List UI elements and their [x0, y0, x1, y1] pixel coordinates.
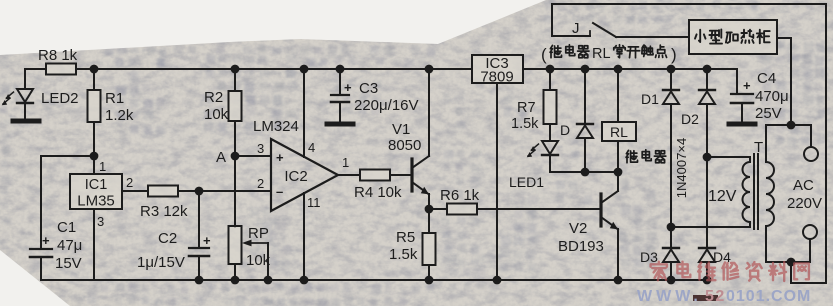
- capacitor C1: [40, 156, 42, 247]
- node C2 junction: [195, 187, 204, 196]
- node IC1 pin1 junction: [90, 152, 99, 161]
- svg-text:LED1: LED1: [509, 174, 544, 190]
- wire relay bottom node: [550, 171, 618, 173]
- svg-text:1.2k: 1.2k: [105, 107, 134, 124]
- svg-text:RL: RL: [610, 124, 628, 140]
- collector wire V1: [428, 69, 430, 156]
- svg-text:LM35: LM35: [77, 193, 115, 210]
- svg-text:+: +: [344, 80, 352, 95]
- diode D3: [663, 247, 679, 249]
- diode D (flyback): [584, 69, 586, 124]
- svg-text:1μ/15V: 1μ/15V: [137, 254, 185, 271]
- wire J to heater box: [616, 36, 689, 38]
- wire IC3 ground pin: [496, 83, 498, 280]
- svg-text:LM324: LM324: [253, 118, 299, 135]
- node C3 top: [336, 65, 345, 74]
- resistor R1: [93, 69, 95, 90]
- pin 1 (IC2 output) wire: [338, 174, 360, 176]
- transformer T secondary winding 12V: [743, 157, 750, 227]
- terminal AC bottom: [803, 225, 817, 239]
- label relay (Chinese): [626, 150, 637, 162]
- svg-text:R5: R5: [396, 229, 415, 246]
- relay coil RL: [617, 69, 619, 122]
- svg-text:J: J: [572, 20, 580, 37]
- svg-text:V1: V1: [392, 121, 410, 138]
- svg-text:R1: R1: [105, 90, 124, 107]
- svg-text:R8 1k: R8 1k: [38, 47, 78, 64]
- svg-text:1: 1: [342, 155, 349, 170]
- svg-text:R3 12k: R3 12k: [140, 203, 188, 220]
- node D cathode top: [581, 65, 590, 74]
- capacitor C4: [736, 69, 738, 92]
- svg-text:3: 3: [97, 214, 104, 229]
- pin 2 (IC1) output wire: [122, 190, 148, 192]
- svg-text:A: A: [216, 149, 226, 166]
- watermark red Chinese text: [651, 262, 809, 281]
- transformer primary winding: [766, 160, 774, 228]
- box heater 小型加热柜: [689, 20, 777, 54]
- svg-text:D2: D2: [681, 111, 699, 127]
- IC U-IC3 7809 regulator: [472, 55, 523, 83]
- svg-text:1N4007×4: 1N4007×4: [674, 138, 689, 198]
- svg-text:1.5k: 1.5k: [389, 246, 418, 263]
- wire primary top lead: [765, 125, 767, 160]
- resistor R4: [360, 170, 390, 181]
- svg-text:LED2: LED2: [41, 90, 79, 107]
- resistor R2: [234, 69, 236, 91]
- svg-text:0101.COM: 0101.COM: [726, 288, 811, 305]
- LED LED1: [542, 141, 558, 154]
- wire top supply rail (left of IC3): [25, 68, 46, 70]
- wire secondary bottom: [671, 226, 750, 228]
- node R2 top: [231, 65, 240, 74]
- svg-text:R7: R7: [517, 100, 536, 116]
- svg-text:D: D: [560, 122, 570, 138]
- capacitor C3: [339, 69, 341, 93]
- collector wire V2: [617, 172, 619, 191]
- svg-text:IC2: IC2: [284, 168, 307, 185]
- node secondary bottom tap: [667, 223, 676, 232]
- wire top supply rail (right of IC3, +12V): [523, 68, 737, 70]
- svg-text:12V: 12V: [708, 188, 737, 205]
- ground (LED2): [13, 119, 39, 124]
- node R7 top: [546, 65, 555, 74]
- pin 11 (IC2 V-): [303, 193, 305, 280]
- wire R6 to V2 base: [477, 208, 601, 210]
- svg-text:47μ: 47μ: [57, 237, 82, 254]
- node D2 top: [703, 65, 712, 74]
- svg-text:D1: D1: [641, 91, 659, 107]
- wire to C1 branch: [41, 155, 94, 157]
- svg-text:C4: C4: [757, 70, 776, 87]
- wire A to op-amp non-inverting input: [235, 155, 271, 157]
- LED LED2: [24, 69, 26, 89]
- potentiometer RP: [229, 226, 242, 264]
- svg-text:): ): [671, 45, 677, 64]
- ground (C4): [729, 122, 755, 127]
- svg-text:R2: R2: [204, 89, 223, 106]
- wire R3 to op-amp inverting input: [178, 190, 271, 192]
- wire secondary top: [707, 156, 750, 158]
- svg-text:C1: C1: [57, 219, 76, 236]
- svg-text:+: +: [743, 78, 751, 93]
- transistor V2 BD193: [599, 194, 602, 226]
- svg-text:V2: V2: [569, 220, 587, 237]
- diode D2: [706, 69, 708, 90]
- resistor R8: [46, 64, 76, 75]
- wire emitter to R6: [429, 208, 447, 210]
- emitter wire V1: [428, 194, 430, 209]
- wire primary-top node: [766, 124, 811, 126]
- svg-text:2: 2: [257, 176, 264, 191]
- svg-text:(: (: [541, 45, 547, 64]
- svg-text:BD193: BD193: [558, 238, 604, 255]
- svg-text:R4 10k: R4 10k: [354, 184, 402, 201]
- svg-text:–: –: [276, 184, 283, 199]
- resistor R5: [428, 209, 430, 233]
- IC U-IC1 LM35 temperature sensor: [70, 174, 122, 209]
- svg-text:RP: RP: [248, 225, 269, 242]
- wire heater to AC node: [777, 37, 791, 39]
- node secondary top tap: [703, 153, 712, 162]
- node A: [231, 152, 240, 161]
- wire primary bottom lead: [765, 226, 767, 262]
- svg-text:RL: RL: [592, 46, 611, 62]
- svg-text:1.5k: 1.5k: [511, 116, 539, 132]
- wire D1-D3 column: [670, 104, 672, 248]
- svg-text:470μ: 470μ: [755, 88, 789, 105]
- node RL top: [614, 65, 623, 74]
- node primary top junction: [787, 121, 796, 130]
- capacitor C2: [198, 191, 200, 246]
- diode D1: [670, 69, 672, 90]
- resistor R6: [447, 204, 477, 215]
- svg-text:IC1: IC1: [85, 177, 108, 193]
- emitter wire V2: [617, 229, 619, 280]
- wire to outer loop: [791, 262, 826, 283]
- op-amp U-IC2 (LM324 section): [271, 139, 338, 211]
- ground (C3): [327, 122, 353, 127]
- node R8/R1 junction: [90, 65, 99, 74]
- svg-text:52: 52: [705, 288, 726, 305]
- svg-text:AC: AC: [793, 177, 814, 194]
- svg-text:8050: 8050: [388, 137, 421, 154]
- svg-text:220V: 220V: [787, 195, 822, 212]
- svg-text:1: 1: [99, 159, 106, 174]
- resistor R3: [148, 186, 178, 197]
- wire A down to RP (crosses pin2 wire): [234, 156, 236, 227]
- svg-text:220μ/16V: 220μ/16V: [354, 97, 419, 114]
- svg-text:C2: C2: [158, 230, 177, 247]
- wire primary bottom node: [766, 261, 810, 263]
- svg-text:11: 11: [307, 195, 321, 210]
- terminal AC top: [804, 147, 818, 161]
- svg-text:25V: 25V: [755, 105, 782, 122]
- resistor R7: [549, 69, 551, 89]
- svg-text:WWW.: WWW.: [637, 288, 702, 305]
- svg-text:3: 3: [257, 141, 264, 156]
- svg-text:4: 4: [308, 140, 315, 155]
- wiper of RP: [267, 243, 269, 280]
- svg-text:D3: D3: [640, 249, 658, 265]
- svg-text:15V: 15V: [55, 255, 82, 272]
- wire D2-D4 column: [706, 104, 708, 248]
- diode D4: [699, 247, 715, 249]
- pin 1 (IC1): [93, 156, 95, 174]
- transistor V1 8050: [410, 159, 413, 191]
- pin 3 (IC1): [93, 209, 95, 280]
- watermark dark red bar: [693, 295, 718, 301]
- transformer core: [753, 154, 755, 229]
- pin 4 (IC2 V+): [300, 65, 309, 74]
- svg-text:R6 1k: R6 1k: [440, 187, 480, 204]
- svg-text:+: +: [276, 150, 284, 165]
- svg-text:10k: 10k: [204, 106, 229, 123]
- svg-text:C3: C3: [359, 80, 378, 97]
- switch J (relay contact): [552, 35, 590, 37]
- wire outer loop top: [552, 4, 826, 283]
- svg-text:+: +: [42, 233, 50, 248]
- svg-text:T: T: [754, 139, 763, 156]
- svg-text:10k: 10k: [246, 252, 271, 269]
- node D1 top: [667, 65, 676, 74]
- svg-text:+: +: [203, 233, 211, 248]
- wire bottom ground rail: [41, 279, 708, 281]
- svg-text:2: 2: [126, 175, 133, 190]
